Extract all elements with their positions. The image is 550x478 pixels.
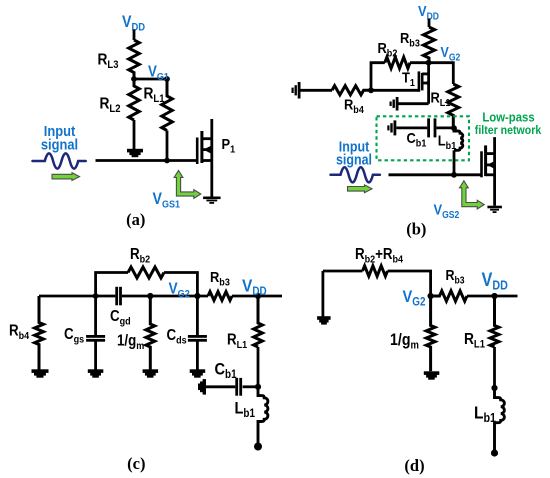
svg-text:T1: T1 [402, 69, 415, 90]
node gate-line junction dot (a) [164, 158, 170, 164]
label Cb1 (c) [215, 360, 237, 381]
caption (a) [126, 210, 145, 229]
label RL1 [144, 85, 165, 106]
ground far-left (b) [292, 82, 301, 99]
dashed low-pass filter box [377, 116, 470, 160]
ground Cgs (c) [88, 369, 104, 377]
svg-text:signal: signal [41, 136, 78, 153]
wire node to RL1 branch (a) [134, 78, 167, 81]
inductor Lb1 (b) [454, 128, 463, 150]
wire Cb1 right lead (c) [243, 385, 258, 388]
resistor Rb3 (c) [208, 292, 232, 301]
label Rb3 (d) [446, 267, 465, 286]
label 1/gm (d) [390, 331, 419, 352]
svg-text:Rb3: Rb3 [400, 29, 420, 50]
label Lb1 (d) [474, 402, 496, 425]
svg-text:Rb3: Rb3 [210, 268, 230, 289]
ground Cds (c) [190, 369, 206, 377]
wire gate line (a) [96, 159, 197, 162]
label RL1 (d) [464, 330, 485, 351]
svg-text:Cds: Cds [167, 327, 188, 347]
label Lb1 (b) [438, 131, 457, 152]
transistor P2 (b) [480, 137, 495, 206]
resistor RL1 (c) [254, 296, 263, 347]
node VG2 dot (d) [428, 293, 434, 299]
svg-text:RL3: RL3 [98, 51, 119, 72]
ground Rb4 (c) [32, 369, 49, 377]
resistor Rb2+Rb4 (d) [363, 266, 388, 276]
svg-text:VG2: VG2 [441, 44, 461, 63]
label signal (a) [41, 136, 78, 153]
label VGS2 [434, 201, 460, 221]
svg-text:(c): (c) [127, 454, 145, 473]
svg-text:Rb2: Rb2 [130, 246, 151, 266]
node Cb1-Lb1 dot (c) [255, 384, 261, 390]
svg-text:Cgs: Cgs [64, 326, 85, 346]
label filter network [475, 125, 542, 138]
resistor RL3 [129, 40, 140, 79]
label Rb2 (c) [130, 246, 151, 266]
label RL1 (c) [227, 332, 248, 352]
ground left (d) [317, 316, 331, 324]
ground Cb1 left-arrow (c) [198, 379, 206, 395]
label Lb1 (c) [235, 400, 256, 421]
label Input (a) [44, 122, 76, 139]
label VGS1 [153, 190, 181, 211]
wire VG2 to RL1 (b) [429, 63, 454, 84]
node gate-line junction dot (b) [451, 172, 457, 178]
wire left drop (d) [321, 271, 324, 317]
label VG2 (c) [169, 279, 191, 300]
resistor Rb4 (b) [332, 86, 371, 95]
wire T1 source (b) [399, 102, 429, 105]
resistor RL1 (d) [490, 296, 499, 347]
svg-text:Lb1: Lb1 [235, 400, 256, 421]
svg-text:(a): (a) [126, 210, 145, 229]
caption (c) [127, 454, 145, 473]
wire gate T1 (b) [371, 89, 418, 92]
node J1 dot (c) [93, 293, 99, 299]
node Cb1-Lb1 dot (b) [451, 125, 457, 131]
label Rb4 (c) [9, 323, 30, 343]
label Cds [167, 327, 188, 347]
wire Cb1 to node (b) [436, 127, 454, 130]
capacitor Cgs [86, 335, 105, 342]
label Low-pass [482, 110, 534, 125]
wire RL1 to node (c) [257, 347, 260, 387]
resistor RL1 [162, 79, 173, 131]
label RL3 [98, 51, 119, 72]
svg-text:(d): (d) [404, 456, 424, 475]
terminal dot Lb1 (c) [254, 443, 262, 451]
resistor RL2 [129, 79, 140, 120]
label RL1 (b) [431, 89, 451, 110]
wire VDD to RL3 (a) [133, 30, 136, 41]
node VG2 dot (c) [194, 293, 200, 299]
wire Lb1 to gate line (b) [453, 150, 456, 175]
svg-text:Cb1: Cb1 [215, 360, 237, 381]
resistor 1/gm (c) [146, 296, 155, 370]
svg-text:Cb1: Cb1 [407, 129, 427, 150]
label 1/gm (c) [117, 332, 145, 352]
label Rb3 (c) [210, 268, 230, 289]
svg-text:VDD: VDD [242, 275, 267, 298]
node VDD dot (c) [255, 293, 261, 299]
input arrow (b) [348, 185, 373, 193]
resistor RL1 (b) [448, 84, 459, 128]
svg-text:1/gm: 1/gm [390, 331, 419, 352]
capacitor Cb1 (b) [427, 118, 436, 137]
transistor T1 [418, 63, 430, 104]
wire main left segment (c) [39, 295, 115, 298]
ground Cb1 (b) [387, 120, 396, 135]
resistor Rb2 (c) [128, 267, 164, 278]
caption (b) [406, 220, 426, 239]
label VDD (c) [242, 275, 267, 298]
wire gate line (b) [389, 173, 481, 176]
wire Cb1 left lead (c) [206, 385, 235, 388]
node VDD dot (d) [491, 293, 497, 299]
label signal (b) [336, 152, 372, 168]
svg-text:(b): (b) [406, 220, 426, 239]
label Rb2 (b) [378, 39, 398, 60]
VDD supply label (b) [418, 2, 439, 22]
ground under RL2 [127, 149, 143, 157]
caption (d) [404, 456, 424, 475]
wire main right segment (c) [232, 295, 282, 298]
label VG1 [148, 64, 169, 84]
node 1/gm junction dot (c) [147, 293, 153, 299]
inductor Lb1 (c) [258, 387, 268, 444]
svg-text:Cgd: Cgd [110, 308, 131, 328]
capacitor Cb1 (c) [235, 378, 242, 396]
label RL2 [100, 95, 121, 116]
resistor Rb4 (c) [35, 296, 44, 370]
wire Rb2 left leg (b) [371, 63, 429, 91]
label Rb3 (b) [400, 29, 420, 50]
resistor Rb3 (d) [431, 291, 467, 301]
resistor Rb3 (b) [423, 27, 434, 63]
svg-text:1/gm: 1/gm [117, 332, 145, 352]
node RL1 top dot [164, 76, 170, 82]
svg-text:Low-pass: Low-pass [482, 110, 534, 125]
wire top-left (d) [323, 271, 431, 296]
ground under P1 [203, 197, 221, 204]
svg-text:VDD: VDD [482, 269, 508, 293]
wire RL2 to ground [133, 120, 136, 150]
wire VDD to Rb3 (b) [428, 19, 431, 28]
wire main mid segment (c) [122, 295, 208, 298]
svg-text:Rb3: Rb3 [446, 267, 465, 286]
transistor P1 [196, 119, 212, 197]
wire ground to Rb4 (b) [301, 89, 333, 92]
svg-text:Lb1: Lb1 [438, 131, 457, 152]
ground under P2 (b) [487, 206, 502, 213]
svg-text:signal: signal [336, 152, 372, 168]
svg-text:RL1: RL1 [227, 332, 248, 352]
label VG2 (d) [403, 288, 426, 309]
ground T1 source (b) [390, 97, 399, 111]
ground 1/gm (d) [424, 371, 440, 379]
wire Cb1 left (b) [396, 127, 427, 130]
svg-text:Rb4: Rb4 [344, 96, 364, 117]
svg-text:VGS2: VGS2 [434, 201, 460, 221]
arrow VGS1 [174, 170, 201, 198]
label Cgd [110, 308, 131, 328]
resistor 1/gm (d) [426, 296, 435, 371]
svg-text:Rb4: Rb4 [9, 323, 30, 343]
svg-text:Rb2: Rb2 [378, 39, 398, 60]
wire Rb2 bridge (c) [96, 273, 198, 297]
arrow VGS2 [460, 181, 485, 209]
capacitor Cgd [115, 287, 122, 306]
wire RL1 to gate line [166, 131, 169, 161]
wire Cgs lead (c) [94, 296, 97, 370]
label P1 [222, 135, 236, 156]
wire Cds lead (c) [196, 296, 199, 370]
node Rb4-Rb2-gate junction dot (b) [368, 87, 374, 93]
inductor Lb1 (d) [495, 388, 505, 451]
terminal dot Lb1 (d) [491, 449, 498, 456]
label Rb4 (b) [344, 96, 364, 117]
svg-text:RL2: RL2 [100, 95, 121, 116]
label VDD (d) [482, 269, 508, 293]
label T1 [402, 69, 415, 90]
label Cgs [64, 326, 85, 346]
label VG2 (b) [441, 44, 461, 63]
svg-text:VG2: VG2 [403, 288, 426, 309]
node VG2 dot (b) [426, 60, 432, 66]
wire RL1 to node (d) [493, 347, 496, 388]
input sine waveform (a) [33, 153, 86, 168]
svg-text:RL1: RL1 [464, 330, 485, 351]
VDD supply label (a) [122, 13, 145, 34]
node VG1 junction dot [131, 76, 137, 82]
input sine waveform (b) [331, 167, 380, 182]
capacitor Cds [188, 335, 207, 342]
label Input (b) [339, 139, 370, 155]
label Rb2+Rb4 (d) [355, 246, 404, 266]
wire Rb3 to VDD (d) [467, 295, 518, 298]
svg-text:RL1: RL1 [144, 85, 165, 106]
node RL1-Lb1 dot (d) [491, 385, 497, 391]
input arrow (a) [52, 173, 80, 181]
svg-text:VG2: VG2 [169, 279, 191, 300]
svg-text:Lb1: Lb1 [474, 402, 496, 425]
label Cb1 (b) [407, 129, 427, 150]
svg-text:Rb2+Rb4: Rb2+Rb4 [355, 246, 404, 266]
svg-text:P1: P1 [222, 135, 236, 156]
ground 1/gm (c) [143, 369, 159, 377]
resistor Rb2 (b) [385, 57, 410, 68]
svg-text:filter network: filter network [475, 125, 542, 138]
